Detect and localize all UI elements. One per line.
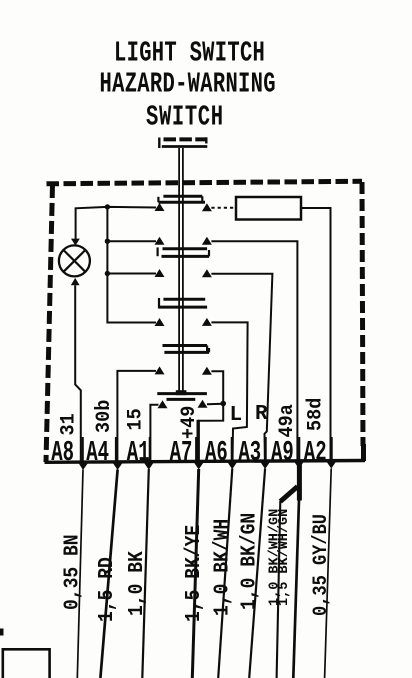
enclosure bottom border [45,461,366,463]
next component box bottom left [3,649,50,678]
right border bottom stub [361,444,366,461]
contact arrow row 1 right [202,203,212,211]
svg-text:A8: A8 [51,438,74,470]
wire row 5 left to terminal A4 [117,371,156,463]
wire row 3 right to terminal A3 [211,274,272,462]
bridge 5 lower contact arrow right [198,400,208,408]
svg-text:A6: A6 [205,438,228,470]
svg-text:1,5 BK/WH/GN: 1,5 BK/WH/GN [277,509,292,606]
contact arrow row 4 right [202,318,212,326]
lamp (panel illumination bulb) [59,245,90,276]
connector pin arrow A8 [79,463,89,470]
wire 0,35 GY/BU from A2 [325,469,332,678]
svg-text:A3: A3 [238,438,261,470]
actuator shaft (double line) [176,148,187,395]
svg-text:A9: A9 [271,438,294,470]
svg-text:L: L [230,404,243,427]
wire bus to row 3 left contact [107,273,156,275]
wire resistor to terminal A2 [301,208,331,462]
node junction bridge5/row5 [220,401,226,407]
contact arrow row 5 left [155,366,165,374]
wiper bridge 5 [157,394,207,400]
svg-text:58d: 58d [304,398,327,431]
wiper bridge 4 [163,346,210,353]
dashed enclosure right border [362,182,363,446]
scan mark left edge [0,629,4,636]
contact arrow row 1 left [155,203,165,211]
svg-text:+49: +49 [177,406,200,439]
wire bus to row 2 left contact [107,240,156,242]
wire 1,5 BK/WH/GN from A9 [293,500,299,678]
node bus junction 2 [105,239,110,244]
wiper bridge 3 [159,298,207,309]
svg-text:A7: A7 [170,438,193,470]
wiper bridge 2 [158,247,209,256]
wiper bridge 1 [158,196,205,202]
title LIGHT SWITCH HAZARD-WARNING SWITCH [100,38,276,134]
connector pin arrow A9 [294,462,304,469]
wire 1,5 BK/YE from A7 [192,469,198,678]
connector pin arrow A1 [144,463,154,470]
contact arrow row 5 right [202,367,212,375]
wire 1,0 BK/WH from A6 [218,469,232,678]
connector pin arrow A6 [228,462,238,469]
svg-text:A2: A2 [304,438,327,470]
contact arrow row 2 right [202,237,212,245]
connector pin arrow A4 [113,463,123,470]
svg-text:R: R [255,403,268,426]
wire 0,35 BN from A8 [77,470,83,678]
wire row 5 right down to junction [198,371,223,421]
contact arrow row 3 right [202,269,212,277]
wire row 4 right to terminal A6 [211,322,247,461]
svg-text:A4: A4 [86,438,109,470]
svg-text:1,0 BK/GN: 1,0 BK/GN [236,513,261,610]
wire 1,0 BK/WH/GN branch [277,501,281,678]
wire bridge5 right contact to junction [207,403,223,406]
node bus junction 3 [105,271,110,276]
switch actuator handle (T knob) [159,137,207,148]
dashed enclosure top border [47,181,363,184]
dashed enclosure left border [46,185,53,462]
wire lamp bottom to terminal A8 [75,285,81,462]
connector pin arrow A3 [260,462,270,469]
svg-text:0,35 BN: 0,35 BN [59,534,84,610]
contact arrow row 3 left [155,269,165,277]
connector pin arrow A2 [327,462,337,469]
svg-text:SWITCH: SWITCH [146,102,224,134]
resistor [236,197,301,220]
svg-text:31: 31 [57,413,80,435]
lamp bottom contact arrow [71,278,80,285]
wire junction to terminal A7 (thick) [196,420,199,462]
svg-text:1,0 BK: 1,0 BK [124,551,149,616]
wire A9 thick stub [297,462,302,501]
wire row 1 right to resistor (dash-dot) [211,207,236,209]
terminal labels A8 A4 A1 A7 A6 A3 A9 A2 [51,438,326,470]
svg-text:1,5 BK/YE: 1,5 BK/YE [181,525,206,622]
svg-text:1,0 BK/WH: 1,0 BK/WH [209,519,234,616]
svg-text:1,5 RD: 1,5 RD [94,557,119,622]
svg-text:49a: 49a [275,404,298,438]
svg-text:15: 15 [124,408,147,430]
svg-text:0,35 GY/BU: 0,35 GY/BU [309,514,333,616]
svg-text:LIGHT SWITCH: LIGHT SWITCH [114,38,265,70]
contact arrow row 4 left [155,318,165,326]
wire 1,5 RD from A4 [100,470,117,678]
wire A9 branch diagonal [280,487,297,502]
svg-text:30b: 30b [92,400,115,433]
left bus wire [107,207,156,323]
svg-text:HAZARD-WARNING: HAZARD-WARNING [100,69,276,101]
wire 1,0 BK/GN from A3 [249,469,265,678]
contact arrow row 2 left [155,237,165,245]
lamp top contact arrow [71,239,80,246]
wire lamp top to bus and contact row 1 left [76,207,156,239]
connector pin arrow A7 [194,463,204,470]
bridge 5 lower contact arrow left [158,400,168,408]
wire bridge5 left contact to terminal A1 [150,405,158,462]
node bus junction 1 [105,204,110,209]
wire row 2 right to terminal A9 [211,241,297,462]
wire 1,0 BK from A1 [142,469,149,678]
terminal separators [83,437,332,461]
